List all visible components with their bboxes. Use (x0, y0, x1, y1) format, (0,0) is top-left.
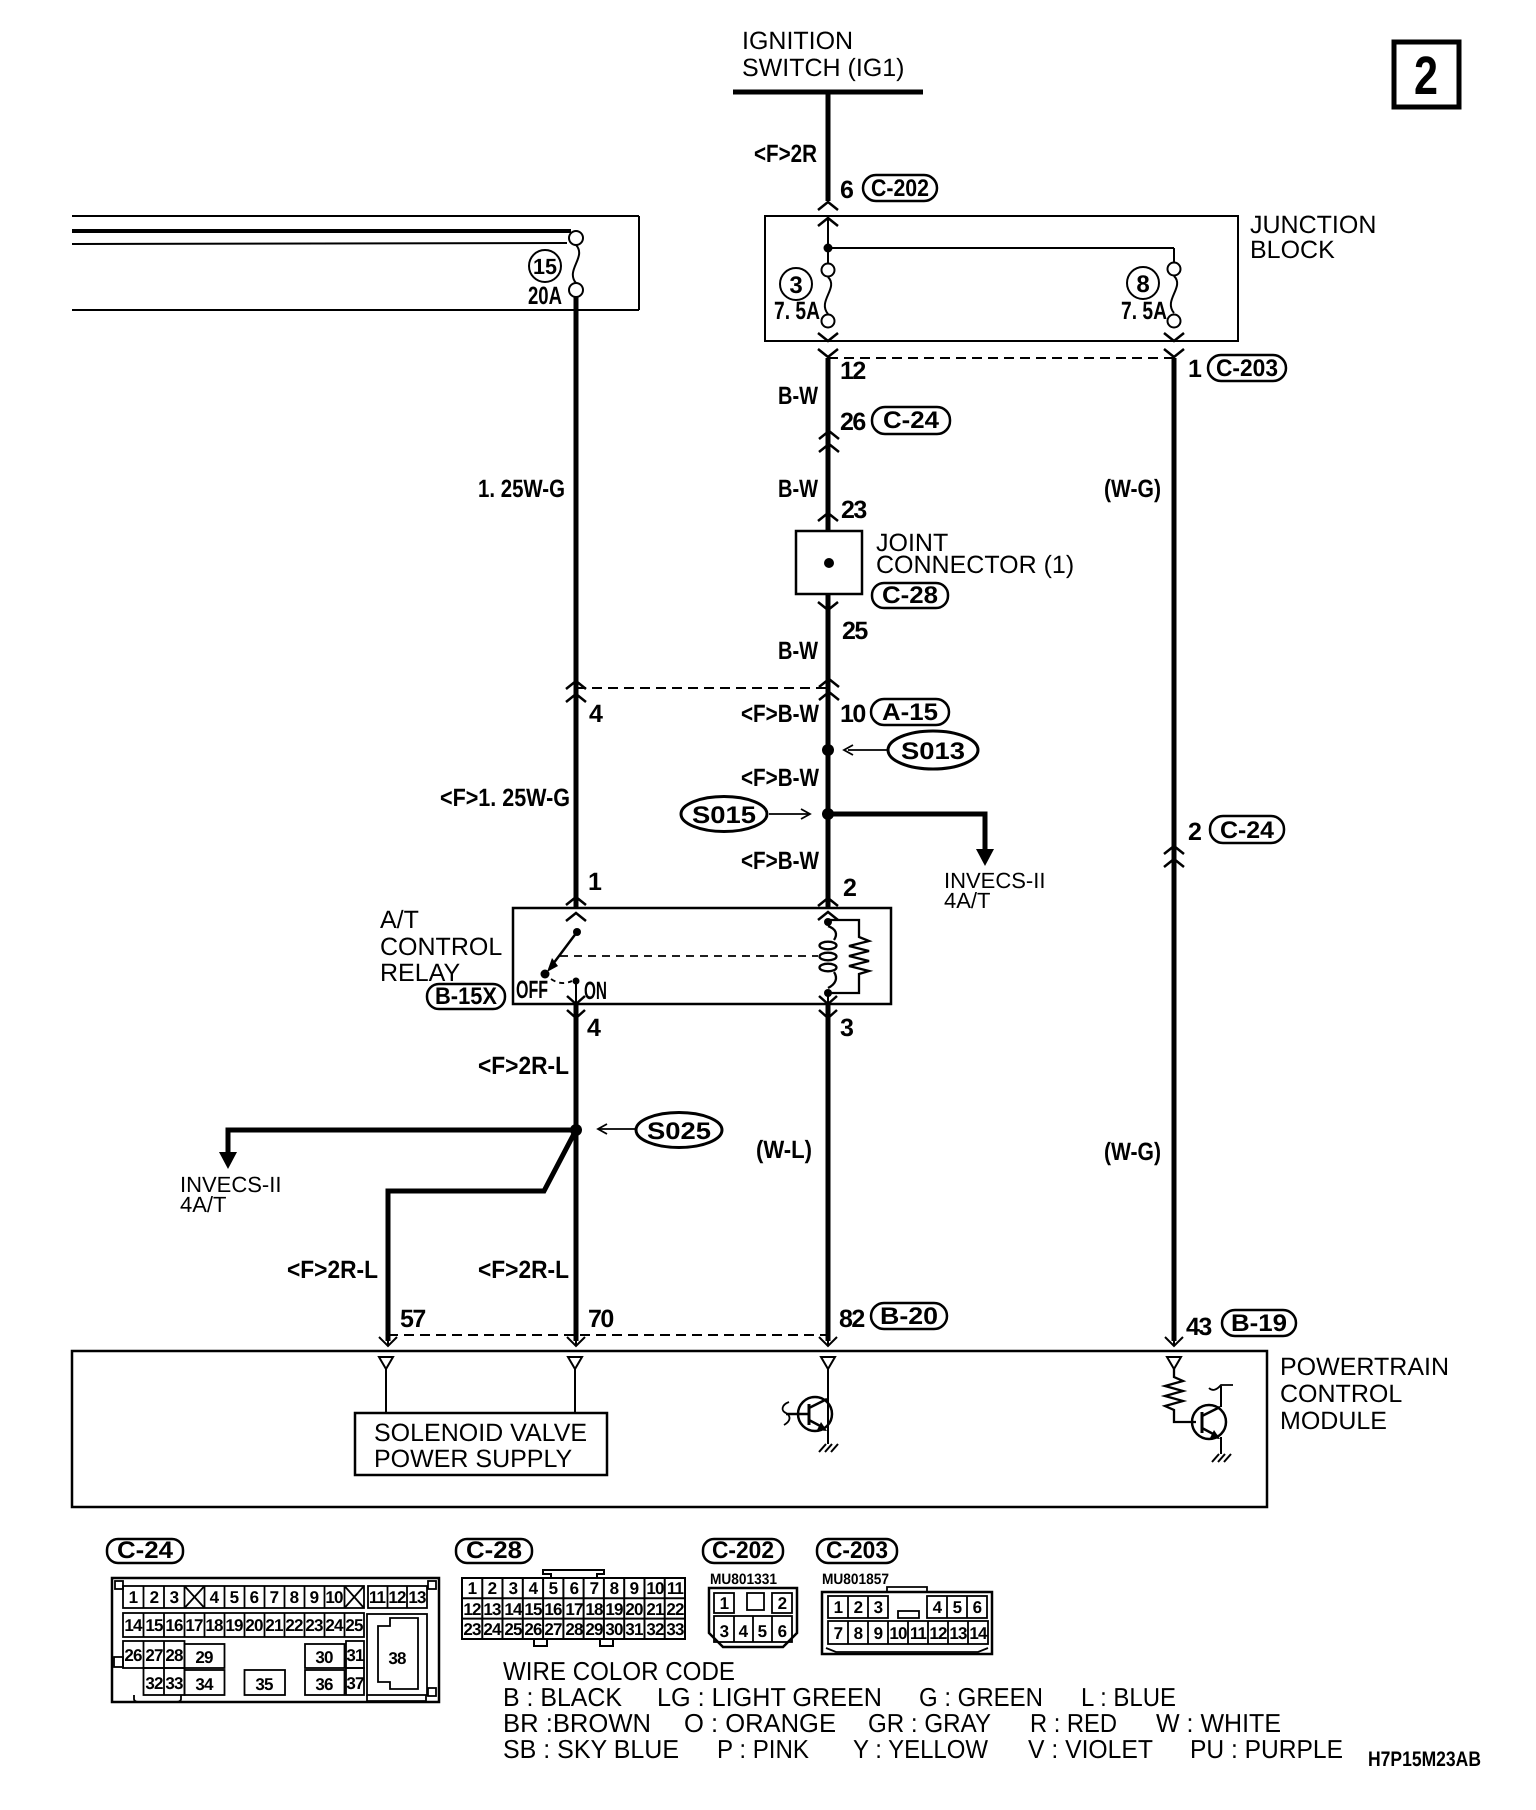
connector C-202 label (703, 1537, 783, 1564)
svg-text:12: 12 (388, 1588, 406, 1607)
solenoid valve power supply box (355, 1413, 607, 1475)
svg-text:B-W: B-W (778, 382, 818, 410)
svg-text:23: 23 (305, 1616, 323, 1635)
svg-text:32: 32 (646, 1620, 664, 1639)
svg-text:2: 2 (854, 1598, 863, 1617)
svg-text:34: 34 (195, 1675, 214, 1694)
chevrons at relay pin 4 (567, 996, 585, 1018)
fuse 8 7.5A symbol (1168, 263, 1181, 328)
relay mechanical link dashed (560, 955, 818, 957)
svg-text:C-203: C-203 (826, 1537, 888, 1564)
svg-text:MODULE: MODULE (1280, 1407, 1387, 1435)
junction block label (1250, 211, 1376, 264)
resistor at PCM pin 43 (1165, 1369, 1196, 1422)
svg-text:B-15X: B-15X (435, 983, 497, 1010)
svg-text:7: 7 (834, 1624, 843, 1643)
svg-text:P : PINK: P : PINK (717, 1734, 810, 1764)
svg-text:6: 6 (250, 1588, 259, 1607)
A/T control relay box (513, 908, 891, 1004)
svg-text:7: 7 (270, 1588, 279, 1607)
in-line connector chevrons at 10 A-15 (819, 679, 839, 700)
relay coil (820, 926, 837, 988)
svg-text:B-W: B-W (778, 637, 818, 665)
svg-text:3: 3 (720, 1622, 729, 1641)
svg-text:1: 1 (1188, 355, 1202, 383)
svg-text:19: 19 (225, 1616, 243, 1635)
svg-text:C-202: C-202 (712, 1537, 774, 1564)
svg-text:28: 28 (565, 1620, 583, 1639)
svg-text:22: 22 (666, 1600, 684, 1619)
svg-text:14: 14 (504, 1600, 523, 1619)
chevrons at relay pin 3 (819, 996, 837, 1018)
svg-text:21: 21 (265, 1616, 283, 1635)
svg-text:2: 2 (1414, 46, 1438, 106)
svg-text:9: 9 (630, 1579, 639, 1598)
svg-text:21: 21 (646, 1600, 664, 1619)
svg-text:2: 2 (778, 1594, 787, 1613)
svg-text:15: 15 (533, 254, 557, 279)
svg-text:<F>2R-L: <F>2R-L (478, 1256, 569, 1284)
transistor Q1 in PCM (783, 1369, 832, 1444)
svg-text:3: 3 (170, 1588, 179, 1607)
wire W-G right branch to PCM (1172, 358, 1177, 1341)
junction block fragment with fuse 15 (72, 216, 639, 310)
svg-text:BLOCK: BLOCK (1250, 236, 1335, 264)
svg-text:POWER SUPPLY: POWER SUPPLY (374, 1445, 573, 1473)
svg-text:2: 2 (1188, 818, 1201, 846)
C-28 pin numbers (463, 1579, 684, 1639)
svg-text:8: 8 (610, 1579, 619, 1598)
svg-text:7. 5A: 7. 5A (774, 297, 820, 325)
svg-text:16: 16 (165, 1616, 183, 1635)
connector C-28 pinout (462, 1570, 685, 1646)
node splice S015 (681, 797, 834, 832)
wire inside junction block (827, 218, 829, 264)
connector C-28 label (456, 1537, 532, 1564)
wire 2R-L relay to S025 (574, 1004, 579, 1341)
node IGNITION SWITCH (IG1) label (742, 27, 905, 82)
relay coil resistor (828, 920, 869, 993)
svg-text:30: 30 (605, 1620, 623, 1639)
chevrons at fuse outputs (818, 333, 1184, 357)
svg-text:4: 4 (529, 1579, 539, 1598)
svg-text:8: 8 (854, 1624, 863, 1643)
svg-text:43: 43 (1186, 1313, 1211, 1341)
svg-text:3: 3 (509, 1579, 518, 1598)
wire branch S025 to INVECS-II 4A/T (180, 1130, 576, 1217)
fuse 3 label (774, 268, 820, 325)
connector C-28 label box (872, 582, 948, 609)
svg-text:12: 12 (840, 357, 865, 385)
svg-text:17: 17 (185, 1616, 203, 1635)
svg-text:C-203: C-203 (1216, 355, 1278, 382)
svg-text:4: 4 (210, 1588, 220, 1607)
chevrons at PCM pins (379, 1334, 1183, 1346)
transistor Q2 in PCM (1192, 1385, 1233, 1454)
chevron at joint connector exit (818, 602, 838, 610)
svg-text:20A: 20A (528, 282, 562, 310)
svg-text:5: 5 (758, 1622, 767, 1641)
svg-text:25: 25 (345, 1616, 363, 1635)
ground at Q1 (819, 1444, 838, 1452)
svg-text:B-W: B-W (778, 475, 818, 503)
svg-text:16: 16 (544, 1600, 562, 1619)
svg-text:4A/T: 4A/T (944, 888, 990, 913)
svg-text:4: 4 (933, 1598, 943, 1617)
wire 1.25W-G fuse 15 to relay (574, 297, 579, 908)
dashed harness line at junction block outputs (828, 357, 1174, 359)
svg-text:18: 18 (585, 1600, 603, 1619)
svg-text:<F>2R-L: <F>2R-L (287, 1256, 378, 1284)
svg-text:2: 2 (843, 874, 856, 902)
wire B-W joint connector to A-15 (826, 594, 831, 908)
svg-text:S015: S015 (692, 802, 756, 829)
svg-text:1: 1 (129, 1588, 138, 1607)
svg-text:26: 26 (840, 408, 865, 436)
switch position labels OFF ON (516, 976, 607, 1005)
svg-text:17: 17 (565, 1600, 583, 1619)
svg-text:37: 37 (346, 1674, 364, 1693)
svg-text:13: 13 (949, 1624, 967, 1643)
fuse 15 20A symbol (569, 231, 583, 297)
svg-text:24: 24 (325, 1616, 344, 1635)
pin 43 connector B-19 (1186, 1310, 1296, 1341)
svg-text:23: 23 (841, 496, 866, 524)
ignition switch bus bar (733, 90, 923, 95)
fuse 8 label (1121, 267, 1167, 325)
fuse 3 7.5A symbol (822, 264, 835, 328)
svg-text:31: 31 (346, 1646, 364, 1665)
svg-text:11: 11 (667, 1579, 684, 1598)
svg-text:6: 6 (840, 176, 853, 204)
svg-text:4: 4 (589, 700, 603, 728)
wire B-W junction block to joint connector (826, 358, 831, 531)
connector C-203 label (817, 1537, 897, 1564)
svg-text:A/T: A/T (380, 906, 419, 934)
bus feed lines to fuse 15 (72, 229, 571, 233)
svg-text:<F>B-W: <F>B-W (741, 700, 819, 728)
connector C-202 pinout (709, 1588, 797, 1647)
svg-text:22: 22 (285, 1616, 303, 1635)
wires pins to solenoid valve power supply (386, 1369, 575, 1413)
svg-text:11: 11 (910, 1624, 927, 1643)
wire junction dot to fuse 8 (828, 247, 1174, 249)
svg-text:6: 6 (973, 1598, 982, 1617)
svg-text:11: 11 (369, 1588, 386, 1607)
svg-text:(W-G): (W-G) (1104, 475, 1161, 503)
svg-text:SOLENOID VALVE: SOLENOID VALVE (374, 1419, 587, 1447)
svg-text:12: 12 (929, 1624, 947, 1643)
svg-text:IGNITION: IGNITION (742, 27, 853, 55)
connector C-24 pinout (112, 1578, 439, 1702)
svg-text:27: 27 (145, 1646, 163, 1665)
svg-text:10: 10 (646, 1579, 664, 1598)
svg-text:(W-L): (W-L) (756, 1136, 812, 1164)
svg-text:MU801857: MU801857 (822, 1571, 889, 1588)
svg-text:2: 2 (488, 1579, 497, 1598)
relay switch contact (541, 913, 587, 1004)
svg-text:B-19: B-19 (1231, 1310, 1287, 1337)
svg-text:SB : SKY BLUE: SB : SKY BLUE (503, 1734, 679, 1764)
svg-text:POWERTRAIN: POWERTRAIN (1280, 1353, 1449, 1381)
joint connector label (876, 529, 1074, 579)
svg-text:26: 26 (524, 1620, 542, 1639)
svg-text:18: 18 (205, 1616, 223, 1635)
svg-text:<F>2R-L: <F>2R-L (478, 1052, 569, 1080)
svg-text:13: 13 (483, 1600, 501, 1619)
PCM pin triangles (379, 1357, 1181, 1369)
svg-text:4: 4 (739, 1622, 749, 1641)
in-line connector chevrons at 2 C-24 (1164, 846, 1184, 867)
svg-text:13: 13 (408, 1588, 426, 1607)
svg-text:1: 1 (720, 1594, 729, 1613)
svg-text:CONTROL: CONTROL (1280, 1380, 1402, 1408)
C-24 pin numbers (124, 1588, 426, 1694)
svg-text:23: 23 (463, 1620, 481, 1639)
svg-text:7: 7 (590, 1579, 599, 1598)
svg-text:24: 24 (483, 1620, 502, 1639)
junction block box (765, 216, 1238, 341)
svg-text:15: 15 (524, 1600, 542, 1619)
powertrain control module label (1280, 1353, 1449, 1435)
svg-text:C-202: C-202 (871, 175, 929, 202)
svg-text:5: 5 (953, 1598, 962, 1617)
svg-text:C-24: C-24 (883, 407, 940, 434)
wire W-L relay to PCM pin 82 (826, 1004, 831, 1341)
svg-text:B-20: B-20 (880, 1303, 938, 1330)
svg-text:<F>B-W: <F>B-W (741, 764, 819, 792)
svg-text:29: 29 (585, 1620, 603, 1639)
svg-text:25: 25 (504, 1620, 522, 1639)
svg-text:20: 20 (245, 1616, 263, 1635)
svg-text:27: 27 (544, 1620, 562, 1639)
svg-text:57: 57 (400, 1305, 425, 1333)
svg-text:6: 6 (778, 1622, 787, 1641)
svg-text:19: 19 (605, 1600, 623, 1619)
svg-text:10: 10 (840, 700, 865, 728)
svg-text:8: 8 (1136, 271, 1149, 298)
page number box 2 (1394, 42, 1459, 107)
wire color code legend (503, 1656, 1343, 1764)
svg-text:35: 35 (255, 1675, 273, 1694)
svg-text:70: 70 (588, 1305, 613, 1333)
pin 6 connector C-202 (840, 175, 937, 204)
chevron at relay pin 1 (566, 897, 586, 905)
svg-text:3: 3 (840, 1014, 853, 1042)
svg-text:4: 4 (587, 1014, 601, 1042)
svg-text:<F>1. 25W-G: <F>1. 25W-G (440, 784, 570, 812)
svg-text:82: 82 (839, 1305, 864, 1333)
pin 10 connector A-15 (840, 699, 949, 728)
chevron at relay pin 2 (818, 898, 838, 906)
connector chevrons at junction block entry (818, 202, 838, 226)
node splice S013 (822, 731, 978, 769)
svg-text:S025: S025 (647, 1118, 711, 1145)
svg-text:1: 1 (468, 1579, 477, 1598)
svg-text:38: 38 (388, 1649, 406, 1668)
svg-text:PU : PURPLE: PU : PURPLE (1190, 1734, 1343, 1764)
svg-text:20: 20 (625, 1600, 643, 1619)
connector C-203 pinout (822, 1592, 992, 1654)
pin 26 connector C-24 (840, 407, 950, 436)
dashed harness line to left wire (576, 687, 828, 689)
relay coil bottom node (824, 989, 832, 1004)
joint connector (1) box (796, 531, 862, 594)
svg-text:V : VIOLET: V : VIOLET (1028, 1734, 1153, 1764)
svg-text:JUNCTION: JUNCTION (1250, 211, 1376, 239)
svg-text:3: 3 (789, 272, 802, 299)
svg-text:6: 6 (570, 1579, 579, 1598)
svg-text:8: 8 (290, 1588, 299, 1607)
wire ignition switch to junction block (826, 92, 831, 201)
connector B-15X label box (427, 983, 505, 1010)
svg-text:29: 29 (195, 1648, 213, 1667)
dashed harness line at PCM pins (388, 1334, 827, 1336)
svg-text:30: 30 (315, 1648, 333, 1667)
svg-text:14: 14 (124, 1616, 143, 1635)
svg-text:OFF: OFF (516, 976, 548, 1004)
svg-text:9: 9 (310, 1588, 319, 1607)
svg-text:12: 12 (463, 1600, 481, 1619)
svg-text:32: 32 (145, 1674, 163, 1693)
svg-text:<F>B-W: <F>B-W (741, 847, 819, 875)
svg-text:H7P15M23AB: H7P15M23AB (1368, 1748, 1481, 1771)
wire branch to INVECS-II 4A/T (828, 814, 1045, 913)
in-line connector chevrons at 4 (566, 681, 586, 702)
svg-text:2: 2 (150, 1588, 159, 1607)
node junction dot (824, 244, 833, 253)
fuse 15 label (528, 250, 562, 310)
connector C-24 label (107, 1537, 183, 1564)
svg-text:31: 31 (625, 1620, 643, 1639)
ground at Q2 (1212, 1454, 1231, 1462)
svg-text:26: 26 (124, 1646, 142, 1665)
svg-text:S013: S013 (901, 738, 965, 765)
svg-text:1: 1 (834, 1598, 843, 1617)
svg-text:C-24: C-24 (1220, 817, 1275, 844)
svg-text:C-28: C-28 (466, 1537, 522, 1564)
pin 2 connector C-24 right (1188, 816, 1284, 846)
svg-text:33: 33 (666, 1620, 684, 1639)
svg-text:4A/T: 4A/T (180, 1192, 226, 1217)
svg-text:ON: ON (584, 977, 607, 1005)
svg-text:15: 15 (145, 1616, 163, 1635)
svg-text:9: 9 (874, 1624, 883, 1643)
svg-text:C-24: C-24 (117, 1537, 174, 1564)
svg-text:MU801331: MU801331 (710, 1571, 777, 1588)
node splice S025 (570, 1113, 722, 1148)
svg-text:7. 5A: 7. 5A (1121, 297, 1167, 325)
svg-text:Y : YELLOW: Y : YELLOW (853, 1734, 988, 1764)
svg-text:C-28: C-28 (882, 582, 938, 609)
svg-text:SWITCH (IG1): SWITCH (IG1) (742, 54, 905, 82)
svg-text:3: 3 (874, 1598, 883, 1617)
svg-text:CONNECTOR (1): CONNECTOR (1) (876, 551, 1074, 579)
wire branch S025 to PCM pin 57 (388, 1130, 576, 1341)
pin 82 connector B-20 (839, 1303, 947, 1333)
A/T control relay label (380, 906, 502, 987)
svg-text:(W-G): (W-G) (1104, 1138, 1161, 1166)
svg-text:5: 5 (549, 1579, 558, 1598)
svg-text:<F>2R: <F>2R (754, 140, 817, 168)
svg-text:1. 25W-G: 1. 25W-G (478, 475, 565, 503)
C-203 pin numbers (834, 1598, 988, 1643)
svg-text:28: 28 (165, 1646, 183, 1665)
in-line connector chevrons at 26 (819, 431, 839, 452)
chevron at joint connector entry (818, 513, 838, 521)
powertrain control module box (72, 1351, 1267, 1507)
svg-text:33: 33 (165, 1674, 183, 1693)
svg-text:14: 14 (969, 1624, 988, 1643)
relay coil pin 2 entry (818, 912, 838, 926)
svg-text:10: 10 (889, 1624, 907, 1643)
svg-text:25: 25 (842, 617, 868, 645)
svg-text:36: 36 (315, 1675, 333, 1694)
pin 1 connector C-203 (1188, 355, 1286, 383)
svg-text:5: 5 (230, 1588, 239, 1607)
svg-text:1: 1 (588, 868, 602, 896)
C-202 pin numbers (720, 1594, 787, 1641)
svg-text:CONTROL: CONTROL (380, 933, 502, 961)
svg-text:10: 10 (325, 1588, 343, 1607)
svg-text:A-15: A-15 (882, 699, 938, 726)
